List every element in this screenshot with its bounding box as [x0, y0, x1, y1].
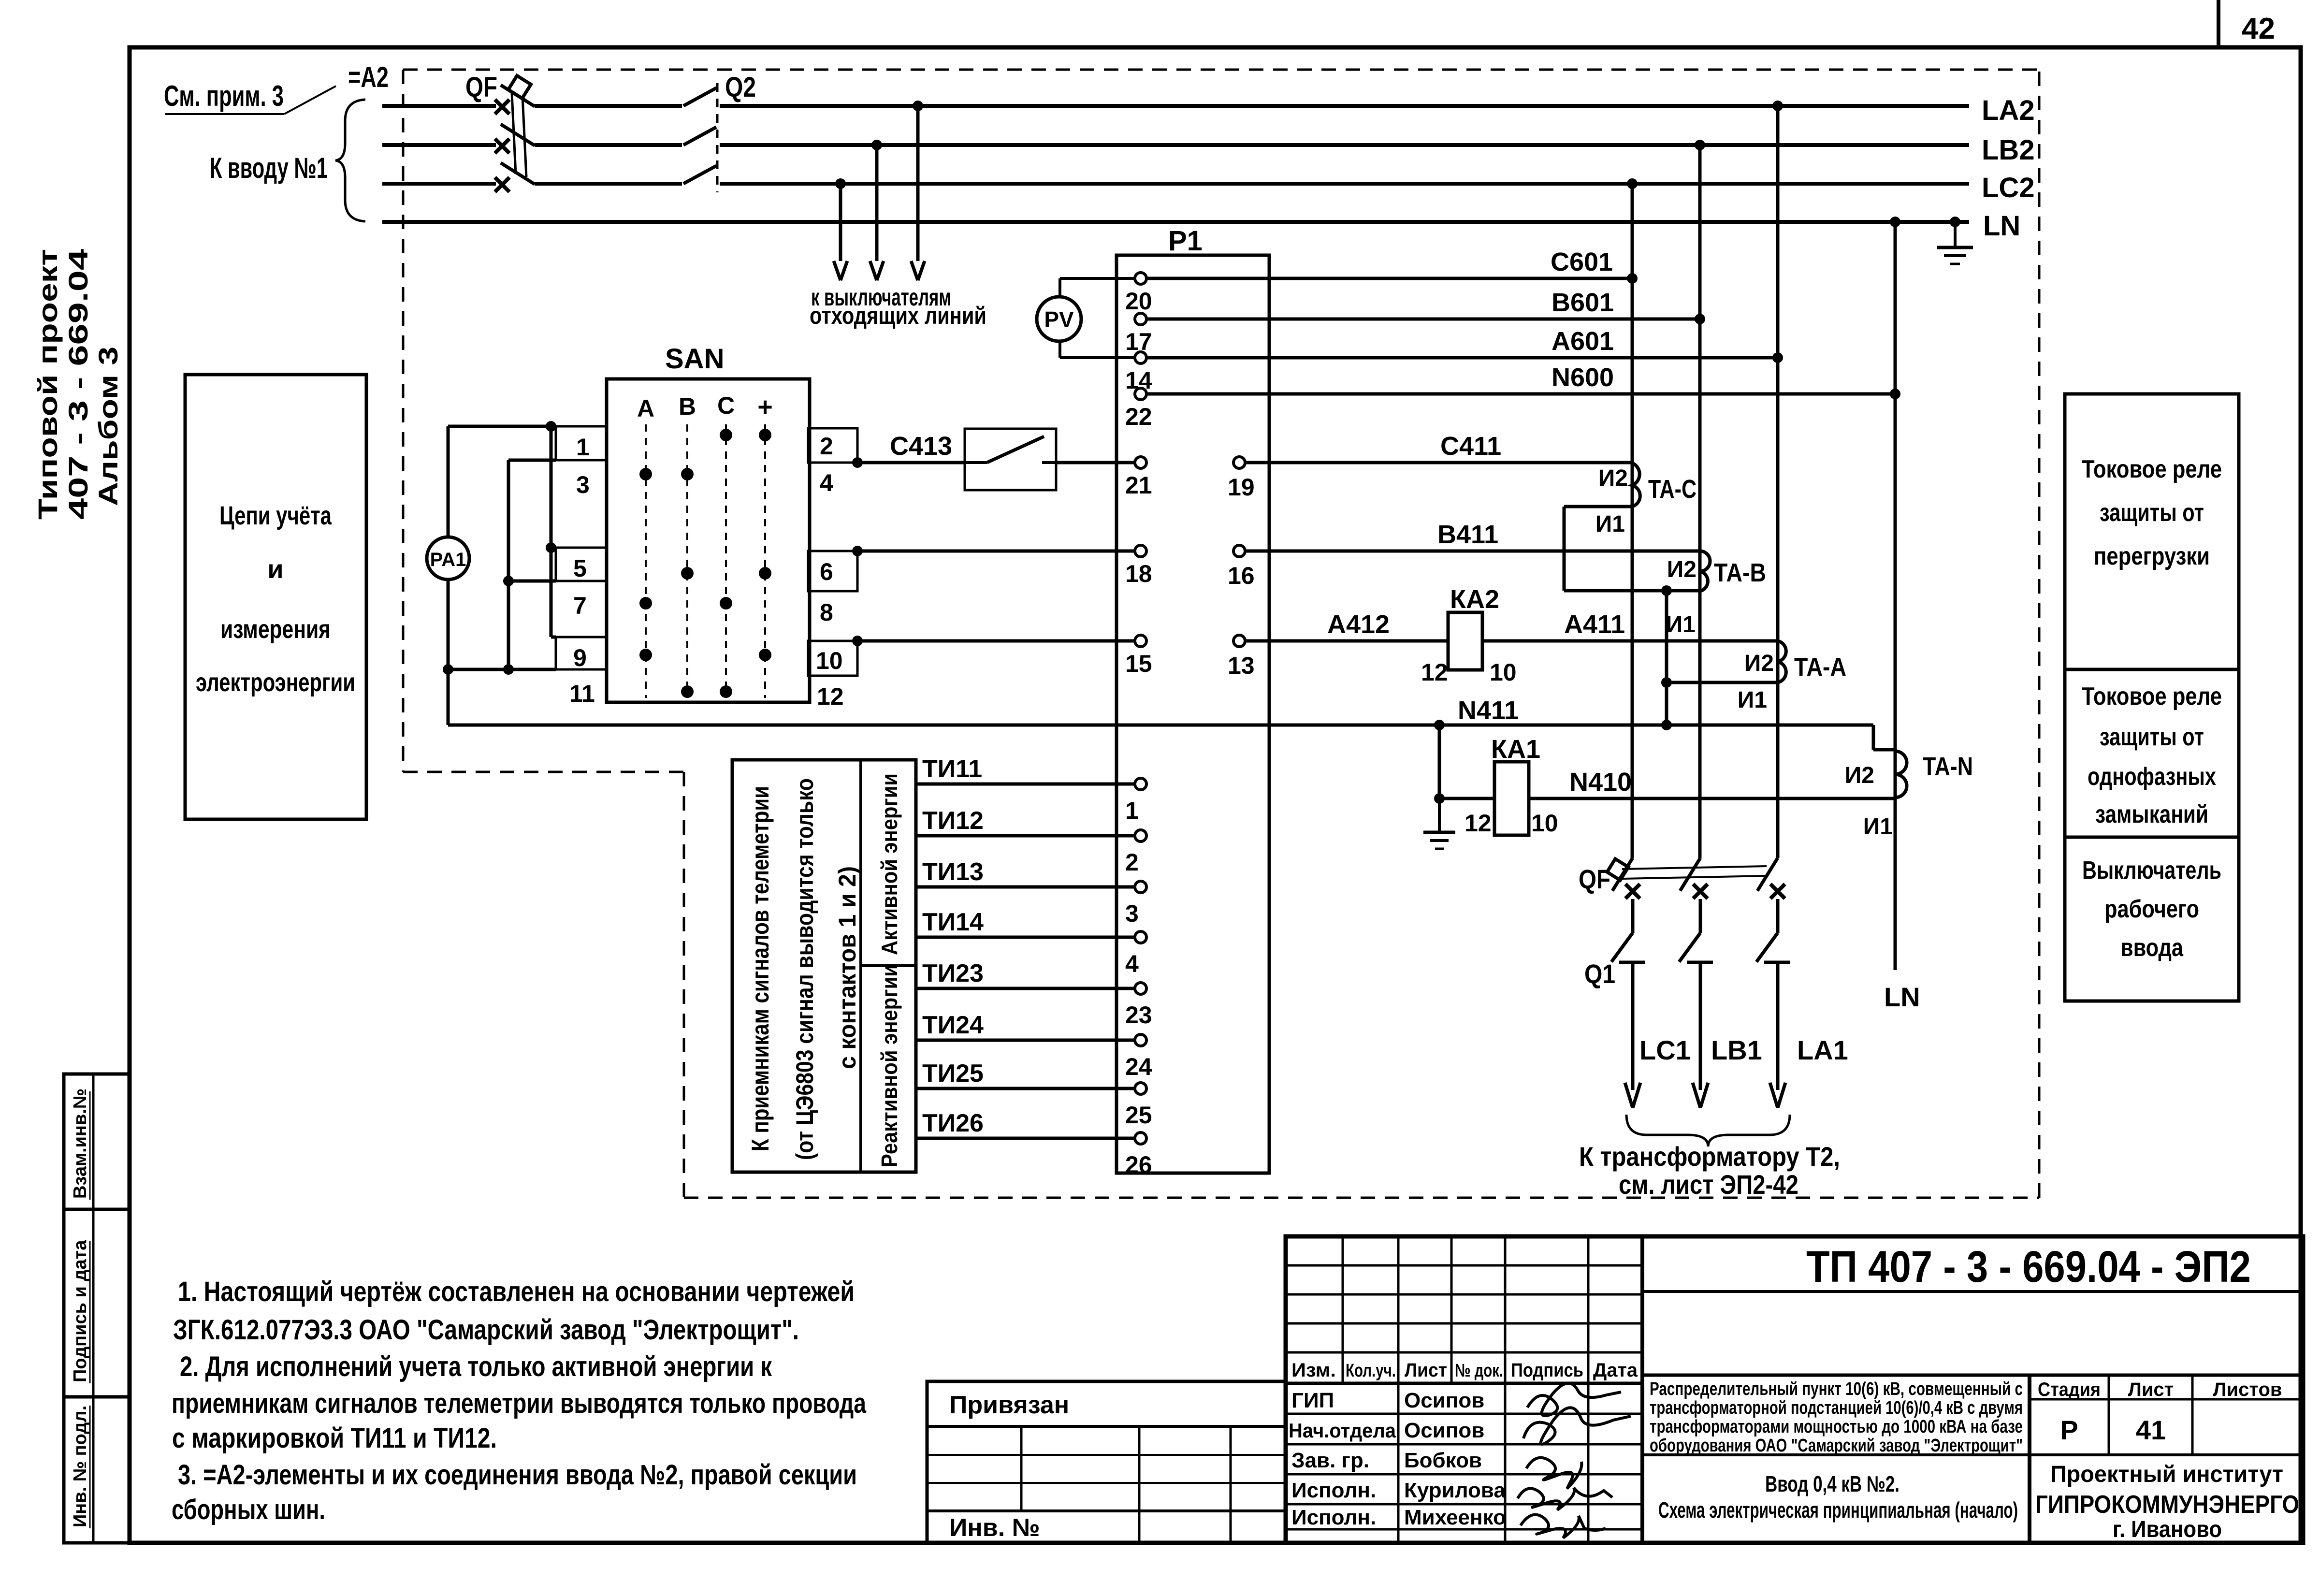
svg-text:3. =А2-элементы и их соединен: 3. =А2-элементы и их соединения ввода №2…: [178, 1459, 857, 1491]
svg-text:А411: А411: [1564, 610, 1625, 639]
svg-text:2. Для исполнений учета тольк: 2. Для исполнений учета только активной …: [180, 1351, 772, 1382]
wire C413 to P1 pin 21: [1056, 461, 1135, 464]
wire TA-A secondary return: [1667, 681, 1778, 684]
wire to SAN pin 1: [448, 425, 556, 428]
P1 pin 15: [1135, 635, 1146, 647]
wire ТИ26: [916, 1137, 1135, 1140]
svg-text:Q1: Q1: [1584, 958, 1615, 989]
svg-text:замыканий: замыканий: [2095, 800, 2208, 828]
P1 pin 22: [1135, 388, 1146, 400]
svg-text:4: 4: [820, 469, 833, 496]
svg-text:Распределительный пункт 10(6): Распределительный пункт 10(6) кВ, совмещ…: [1650, 1379, 2023, 1399]
wire N411 (long horizontal): [448, 724, 1873, 727]
wire to relay KA1: [1439, 797, 1494, 800]
svg-text:SAN: SAN: [665, 343, 724, 375]
svg-text:Осипов: Осипов: [1404, 1419, 1484, 1442]
svg-text:10: 10: [1490, 659, 1517, 686]
svg-text:К вводу №1: К вводу №1: [210, 152, 328, 184]
svg-text:И2: И2: [1744, 651, 1774, 676]
wire A601: [1146, 356, 1778, 360]
svg-text:И1: И1: [1863, 814, 1893, 840]
svg-text:Листов: Листов: [2213, 1379, 2282, 1400]
svg-text:К трансформатору Т2,: К трансформатору Т2,: [1579, 1141, 1840, 1172]
svg-text:И2: И2: [1598, 465, 1628, 491]
svg-text:LA2: LA2: [1982, 95, 2035, 126]
svg-text:23: 23: [1125, 1001, 1152, 1029]
svg-text:10: 10: [816, 647, 843, 674]
svg-text:ТИ13: ТИ13: [922, 858, 984, 886]
wire common return to N411: [1665, 591, 1668, 725]
P1 pin 17: [1135, 313, 1146, 325]
stage/sheet header: [2030, 1398, 2303, 1401]
left sidebar column: [64, 1074, 130, 1543]
test box SAN: [607, 379, 810, 702]
svg-text:С413: С413: [890, 432, 952, 461]
svg-text:Нач.отдела: Нач.отдела: [1289, 1419, 1396, 1442]
svg-text:ГИП: ГИП: [1291, 1389, 1334, 1412]
current transformer TA-A: [1778, 641, 1786, 682]
wire phase A vertical: [1776, 106, 1780, 858]
svg-text:C601: C601: [1551, 247, 1613, 276]
P1 pin 21: [1135, 457, 1146, 468]
svg-text:С411: С411: [1440, 432, 1501, 461]
svg-text:Выключатель: Выключатель: [2082, 856, 2221, 885]
svg-text:трансформаторной подстанцией 1: трансформаторной подстанцией 10(6)/0,4 к…: [1650, 1398, 2023, 1418]
svg-text:ТИ11: ТИ11: [922, 755, 982, 783]
svg-text:9: 9: [573, 644, 587, 671]
wire N411 branch down: [1438, 725, 1441, 798]
box: current relay overload: [2065, 394, 2239, 669]
P1 pin 20: [1135, 273, 1146, 284]
svg-text:В411: В411: [1437, 520, 1498, 549]
wire C601: [1146, 277, 1632, 280]
svg-text:P1: P1: [1168, 225, 1203, 257]
current transformer TA-N: [1895, 751, 1907, 798]
svg-text:12: 12: [1464, 810, 1492, 837]
svg-text:И2: И2: [1845, 763, 1874, 788]
box: current relay single-phase: [2065, 669, 2239, 837]
svg-text:18: 18: [1125, 560, 1152, 587]
svg-text:5: 5: [573, 555, 587, 582]
svg-text:12: 12: [817, 683, 844, 710]
svg-text:См. прим. 3: См. прим. 3: [164, 80, 284, 112]
svg-text:20: 20: [1125, 288, 1152, 315]
svg-text:Кол.уч.: Кол.уч.: [1346, 1361, 1396, 1381]
svg-text:11: 11: [569, 680, 595, 707]
svg-text:см. лист ЭП2-42: см. лист ЭП2-42: [1619, 1169, 1798, 1200]
wire PV to pin 20: [1058, 278, 1061, 297]
P1 pin 16: [1233, 545, 1245, 557]
svg-text:6: 6: [820, 558, 833, 585]
svg-text:ТА-А: ТА-А: [1794, 653, 1846, 682]
svg-text:и: и: [267, 555, 283, 584]
P1 pin 1: [1135, 778, 1146, 790]
switch SA C413: [965, 429, 1056, 490]
svg-text:LB2: LB2: [1982, 134, 2035, 166]
wire neutral vertical: [1894, 222, 1897, 970]
SAN right terminals 2/4, 6/8, 10/12: [808, 428, 857, 463]
wire to SAN pin 11: [448, 668, 556, 671]
terminal block P1: [1116, 255, 1269, 1173]
wire phase C vertical: [1631, 184, 1634, 858]
svg-text:2: 2: [1125, 849, 1139, 876]
wire phase B vertical: [1698, 145, 1702, 858]
svg-text:=А2: =А2: [348, 61, 389, 93]
svg-text:(от ЦЭ6803 сигнал выводится то: (от ЦЭ6803 сигнал выводится только: [791, 778, 818, 1160]
wire PA1 riser: [447, 426, 450, 537]
current transformer TA-B: [1700, 551, 1710, 591]
wire to SAN pin 3: [508, 459, 556, 462]
wire to SAN pin 7: [508, 580, 556, 583]
svg-text:Ввод 0,4 кВ №2.: Ввод 0,4 кВ №2.: [1765, 1471, 1899, 1496]
signatures: [1527, 1383, 1621, 1416]
svg-text:Токовое реле: Токовое реле: [2082, 455, 2222, 483]
svg-text:И1: И1: [1738, 687, 1767, 713]
wire ТИ23: [916, 987, 1135, 990]
svg-text:А412: А412: [1327, 610, 1390, 639]
svg-text:10: 10: [1531, 810, 1558, 837]
svg-text:Взам.инв.№: Взам.инв.№: [70, 1088, 90, 1199]
P1 pin 13: [1233, 635, 1245, 647]
P1 pin 23: [1135, 983, 1146, 994]
svg-text:электроэнергии: электроэнергии: [196, 668, 355, 697]
bus line LA2: [382, 104, 496, 108]
svg-text:LN: LN: [1983, 210, 2020, 242]
P1 pin 2: [1135, 830, 1146, 842]
svg-text:Инв. № подл.: Инв. № подл.: [70, 1406, 90, 1527]
svg-text:КА1: КА1: [1491, 735, 1540, 764]
svg-text:отходящих линий: отходящих линий: [810, 302, 986, 329]
P1 pin 3: [1135, 881, 1146, 893]
svg-text:ТА-С: ТА-С: [1648, 475, 1696, 504]
P1 pin 4: [1135, 931, 1146, 943]
ground under KA1 branch: [1438, 798, 1441, 832]
svg-text:С: С: [717, 392, 735, 419]
svg-text:Цепи учёта: Цепи учёта: [219, 501, 332, 530]
svg-text:Зав. гр.: Зав. гр.: [1291, 1449, 1369, 1472]
svg-text:с контактов 1 и 2): с контактов 1 и 2): [834, 866, 861, 1069]
svg-text:LA1: LA1: [1797, 1035, 1848, 1065]
svg-text:КА2: КА2: [1450, 585, 1499, 614]
wire A412: [1245, 639, 1448, 643]
P1 pin 24: [1135, 1034, 1146, 1046]
relay KA2: [1448, 612, 1482, 670]
SAN contact dots: [720, 429, 732, 441]
svg-text:22: 22: [1125, 403, 1152, 430]
svg-text:Р: Р: [2060, 1415, 2078, 1445]
svg-text:Схема электрическая принципиал: Схема электрическая принципиальная (нача…: [1658, 1497, 2018, 1523]
svg-text:Привязан: Привязан: [949, 1391, 1069, 1419]
P1 pin 14: [1135, 352, 1146, 363]
svg-text:ТИ25: ТИ25: [922, 1059, 984, 1088]
SAN dashed contact columns: [645, 424, 647, 698]
wire B601: [1146, 318, 1700, 321]
svg-text:4: 4: [1125, 950, 1139, 977]
svg-text:№ док.: № док.: [1455, 1361, 1503, 1381]
svg-text:оборудования ОАО "Самарский за: оборудования ОАО "Самарский завод "Элект…: [1650, 1436, 2023, 1456]
svg-text:QF: QF: [1579, 864, 1610, 894]
SAN left terminals 1/3, 5/7, 9/11: [556, 426, 607, 460]
wire N600: [1146, 392, 1895, 396]
box: metering circuits: [185, 375, 366, 819]
svg-text:И1: И1: [1666, 612, 1696, 638]
wire ТИ25: [916, 1087, 1135, 1090]
svg-text:И2: И2: [1667, 557, 1696, 582]
svg-text:N411: N411: [1458, 696, 1519, 725]
svg-text:ЗГК.612.077Э3.3 ОАО "Самарский: ЗГК.612.077Э3.3 ОАО "Самарский завод "Эл…: [173, 1314, 799, 1346]
svg-text:г. Иваново: г. Иваново: [2113, 1517, 2222, 1542]
wire ТИ12: [916, 834, 1135, 838]
wire ТИ11: [916, 783, 1135, 786]
svg-text:+: +: [757, 392, 773, 421]
current transformer TA-C: [1632, 463, 1640, 507]
svg-text:1: 1: [576, 434, 590, 461]
bus line LB2: [382, 143, 496, 147]
svg-text:Инв. №: Инв. №: [949, 1514, 1040, 1542]
svg-text:3: 3: [576, 471, 590, 498]
svg-text:ТП 407 - 3 - 669.04 - ЭП2: ТП 407 - 3 - 669.04 - ЭП2: [1806, 1242, 2251, 1291]
svg-text:N600: N600: [1551, 363, 1614, 392]
svg-text:LC2: LC2: [1982, 172, 2035, 203]
svg-text:ввода: ввода: [2120, 934, 2184, 962]
svg-text:ТИ14: ТИ14: [922, 908, 984, 936]
svg-text:сборных шин.: сборных шин.: [172, 1494, 325, 1525]
description area line: [1642, 1374, 2303, 1377]
svg-text:ТА-В: ТА-В: [1714, 558, 1766, 587]
wire ТИ13: [916, 885, 1135, 889]
svg-text:В: В: [679, 393, 696, 420]
wire ТИ24: [916, 1039, 1135, 1042]
wire to SAN pin 5: [551, 546, 556, 550]
svg-text:Лист: Лист: [2128, 1379, 2174, 1400]
svg-text:А601: А601: [1551, 327, 1614, 356]
svg-text:41: 41: [2136, 1415, 2166, 1445]
bus line LC2: [382, 182, 496, 186]
svg-text:Активной энергии: Активной энергии: [877, 773, 902, 955]
relay KA1: [1494, 762, 1529, 835]
wire SAN pin6 to P1 pin 18: [852, 546, 863, 556]
svg-text:А: А: [637, 395, 654, 422]
ground at LN: [1950, 217, 1960, 227]
svg-text:3: 3: [1125, 900, 1139, 927]
brace to transformer T2: [1626, 1115, 1790, 1146]
svg-text:407 - 3 - 669.04: 407 - 3 - 669.04: [63, 249, 93, 520]
svg-text:Типовой проект: Типовой проект: [32, 249, 63, 520]
svg-text:К приемникам сигналов телеметр: К приемникам сигналов телеметрии: [747, 786, 774, 1151]
svg-text:перегрузки: перегрузки: [2094, 542, 2210, 570]
svg-text:Дата: Дата: [1593, 1360, 1638, 1381]
svg-text:Михеенко: Михеенко: [1404, 1506, 1506, 1529]
svg-text:Бобков: Бобков: [1404, 1449, 1482, 1472]
svg-text:ТИ24: ТИ24: [922, 1011, 984, 1039]
ammeter PA1: [427, 537, 469, 580]
wire C411: [1245, 461, 1632, 464]
dashed =A2 boundary: [403, 69, 2039, 71]
svg-text:LB1: LB1: [1711, 1035, 1762, 1065]
title block outer: [1286, 1236, 2303, 1543]
svg-text:13: 13: [1228, 652, 1255, 679]
svg-text:Изм.: Изм.: [1291, 1360, 1336, 1381]
wire A411: [1482, 639, 1778, 643]
svg-text:измерения: измерения: [220, 615, 331, 644]
wire ТИ14: [916, 936, 1135, 939]
svg-text:ТИ26: ТИ26: [922, 1109, 984, 1137]
measuring riser x1052: [507, 460, 510, 669]
svg-text:25: 25: [1125, 1102, 1152, 1129]
wire SAN pin2 to switch C413: [852, 457, 863, 468]
svg-text:защиты от: защиты от: [2100, 723, 2204, 751]
svg-text:N410: N410: [1569, 768, 1632, 797]
svg-text:Стадия: Стадия: [2038, 1379, 2101, 1400]
P1 pin 18: [1135, 545, 1146, 557]
svg-text:12: 12: [1421, 659, 1448, 686]
svg-text:16: 16: [1228, 562, 1255, 589]
wire TA-C secondary loop: [1564, 505, 1632, 508]
svg-text:21: 21: [1125, 472, 1152, 499]
svg-text:Лист: Лист: [1405, 1360, 1447, 1381]
wire PV to pin 14: [1058, 341, 1061, 358]
svg-text:рабочего: рабочего: [2104, 895, 2199, 923]
wire SAN pin10 to P1 pin 15: [852, 636, 863, 646]
svg-text:24: 24: [1125, 1053, 1152, 1080]
wire to SAN pin 9: [551, 636, 556, 639]
svg-text:Подпись и дата: Подпись и дата: [70, 1240, 90, 1382]
svg-text:1: 1: [1125, 797, 1139, 824]
measuring riser x1140: [550, 426, 553, 637]
wire N410: [1529, 797, 1895, 800]
svg-text:PA1: PA1: [430, 549, 466, 570]
bus line LN: [382, 220, 1969, 224]
title block left grid verticals: [1342, 1236, 1344, 1383]
svg-text:Альбом 3: Альбом 3: [93, 347, 123, 506]
svg-text:Подпись: Подпись: [1511, 1360, 1583, 1381]
svg-text:защиты от: защиты от: [2100, 499, 2204, 527]
taps and arrows to feeder breakers: [913, 101, 923, 111]
svg-text:Q2: Q2: [725, 72, 756, 103]
svg-text:B601: B601: [1551, 288, 1614, 317]
svg-text:19: 19: [1228, 474, 1255, 501]
svg-text:1. Настоящий чертёж составлен: 1. Настоящий чертёж составленен на основ…: [178, 1276, 855, 1307]
P1 pin 26: [1135, 1132, 1146, 1144]
svg-text:2: 2: [820, 433, 833, 460]
svg-text:Исполн.: Исполн.: [1291, 1506, 1376, 1529]
sheet number box 42: [2217, 0, 2220, 47]
svg-text:Осипов: Осипов: [1404, 1389, 1484, 1412]
svg-text:LN: LN: [1884, 982, 1920, 1012]
svg-text:Курилова: Курилова: [1404, 1479, 1506, 1502]
svg-text:QF: QF: [465, 72, 497, 103]
svg-text:Исполн.: Исполн.: [1291, 1479, 1376, 1502]
voltmeter PV: [1037, 297, 1081, 341]
box: working input breaker: [2065, 837, 2239, 1001]
svg-text:PV: PV: [1044, 307, 1074, 332]
svg-text:Токовое реле: Токовое реле: [2082, 682, 2222, 711]
svg-text:8: 8: [820, 599, 833, 626]
svg-text:трансформаторами мощностью до: трансформаторами мощностью до 1000 кВА н…: [1650, 1417, 2023, 1437]
svg-text:7: 7: [573, 592, 587, 619]
svg-text:И1: И1: [1595, 511, 1625, 537]
svg-text:26: 26: [1125, 1151, 1152, 1178]
svg-text:Проектный институт: Проектный институт: [2050, 1462, 2283, 1487]
svg-text:ТИ12: ТИ12: [922, 807, 984, 835]
svg-text:42: 42: [2242, 12, 2275, 45]
P1 pin 19: [1233, 457, 1245, 468]
left extension box: [927, 1381, 1286, 1543]
svg-text:LC1: LC1: [1639, 1035, 1691, 1065]
svg-text:ГИПРОКОММУНЭНЕРГО: ГИПРОКОММУНЭНЕРГО: [2035, 1491, 2299, 1519]
svg-text:с маркировкой ТИ11 и ТИ12.: с маркировкой ТИ11 и ТИ12.: [172, 1422, 497, 1454]
svg-text:Реактивной энергии: Реактивной энергии: [877, 964, 902, 1167]
wire B411: [1245, 550, 1700, 553]
telemetry block: [732, 760, 916, 1172]
title block left grid rows: [1286, 1264, 1642, 1267]
svg-text:15: 15: [1125, 650, 1152, 677]
P1 pin 25: [1135, 1083, 1146, 1094]
svg-text:однофазных: однофазных: [2088, 763, 2216, 791]
svg-text:ТА-N: ТА-N: [1923, 752, 1973, 781]
svg-text:ТИ23: ТИ23: [922, 959, 984, 987]
svg-text:приемникам сигналов телеметрии: приемникам сигналов телеметрии выводятся…: [172, 1388, 867, 1419]
